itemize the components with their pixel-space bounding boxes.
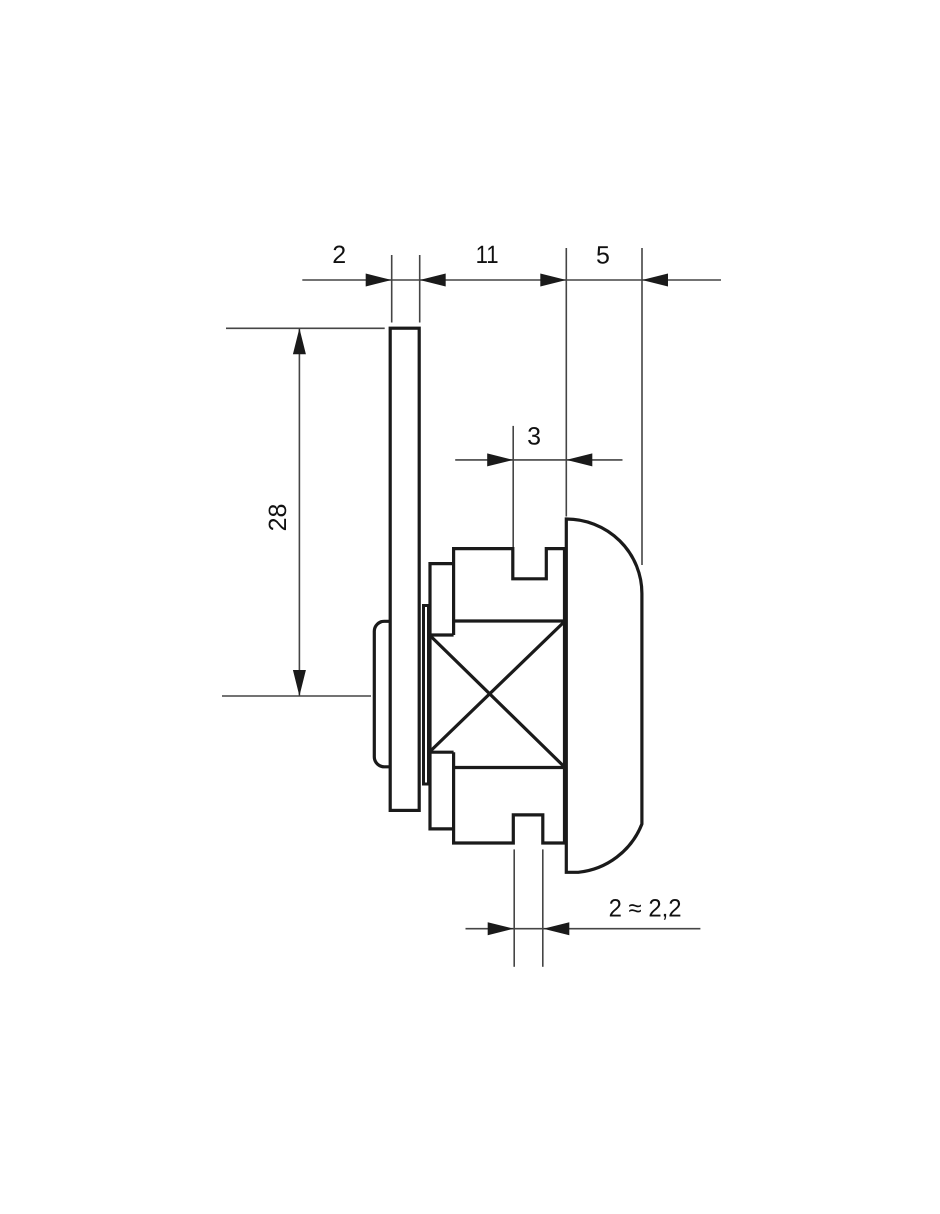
extension line 28 top	[226, 327, 385, 329]
svg-text:11: 11	[476, 241, 499, 269]
barrel top line	[454, 619, 565, 622]
arrowhead 28-top (points up)	[293, 328, 306, 354]
svg-text:3: 3	[527, 423, 541, 451]
washer	[424, 606, 429, 785]
extension line notch left x=513.2	[512, 426, 514, 548]
arrowhead 2,2-left (points right at x=513.7)	[488, 922, 514, 935]
svg-text:2 ≈ 2,2: 2 ≈ 2,2	[609, 895, 682, 923]
extension line body right / dome left x=566.3	[565, 248, 567, 517]
step ledge lower	[430, 751, 454, 754]
dimension line 2≈2,2	[466, 928, 701, 930]
arrowhead 2-right (points left at x=418)	[420, 274, 446, 287]
extension line stem right x=542.8	[542, 849, 544, 966]
step ledge upper	[430, 633, 454, 636]
front bezel bump	[374, 621, 391, 767]
dimension line 3	[455, 459, 622, 461]
body outline	[454, 549, 565, 843]
arrowhead 11-right (points right at x=566.3)	[540, 274, 566, 287]
extension line 28 bottom	[222, 695, 371, 697]
extension line plate left x=391	[391, 255, 393, 323]
arrowhead 2,2-right (points left at x=543.3)	[543, 922, 569, 935]
dome head	[566, 519, 642, 872]
svg-text:28: 28	[264, 504, 292, 532]
barrel diagonal 2	[431, 622, 565, 751]
body left step	[430, 564, 454, 829]
extension line stem left x=514.2	[513, 849, 515, 966]
arrowhead 3-right (points left at x=566.3)	[566, 453, 592, 466]
svg-text:2: 2	[332, 241, 346, 269]
dimension line top (2 / 11 / 5)	[302, 279, 721, 281]
extension line plate right x=418	[419, 255, 421, 323]
extension line dome apex x=642	[641, 248, 643, 565]
arrowhead 5-right (points left at x=642)	[642, 274, 668, 287]
cam plate	[390, 328, 419, 810]
dimension line 28 (vertical)	[298, 328, 300, 696]
svg-text:5: 5	[596, 241, 610, 269]
arrowhead 2-left (points right at x=391)	[366, 274, 392, 287]
arrowhead 3-left (points right at x=513.2)	[487, 453, 513, 466]
barrel bottom line	[454, 766, 565, 769]
arrowhead 28-bottom (points down)	[293, 670, 306, 696]
barrel diagonal 1	[431, 636, 565, 767]
